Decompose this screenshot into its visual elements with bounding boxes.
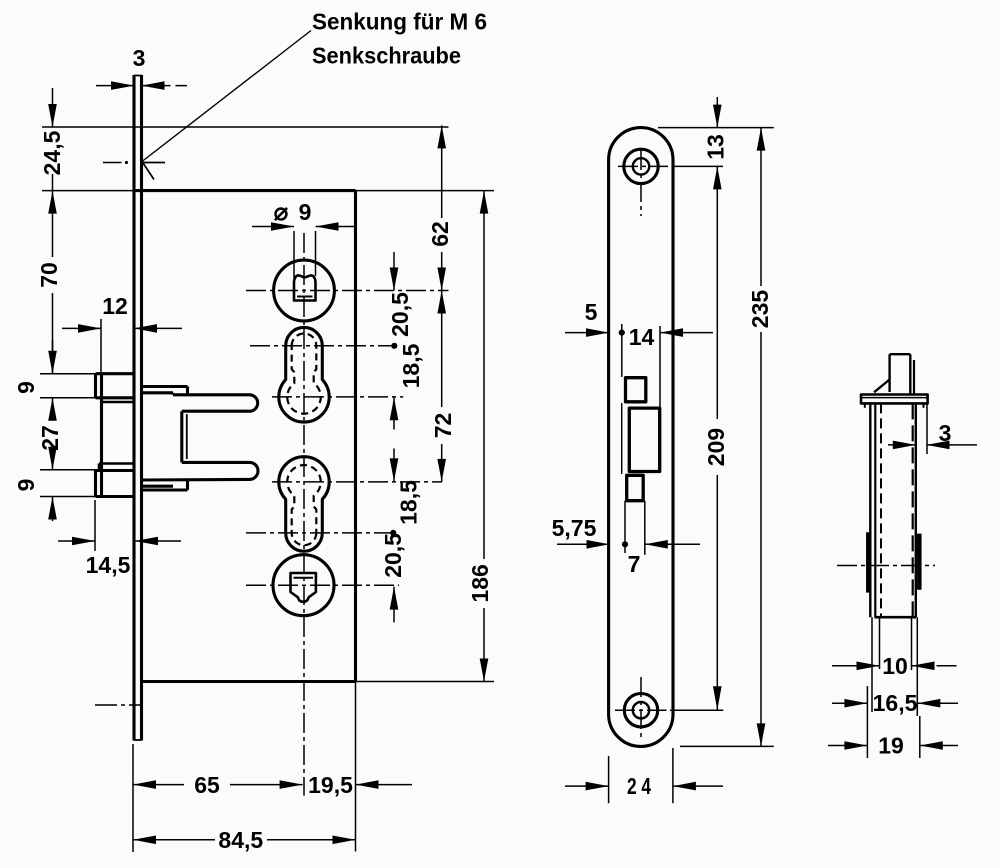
latch cutout upper square — [626, 378, 646, 402]
svg-text:9: 9 — [299, 199, 312, 225]
keyhole 2 hidden cylinder profile (dashed) — [287, 465, 321, 545]
centerline top hole — [246, 290, 449, 292]
countersink centerline mark — [103, 162, 122, 164]
extension left x133 down — [132, 744, 134, 852]
right view centerline — [837, 565, 935, 567]
svg-text:10: 10 — [882, 653, 908, 679]
dimension 70 — [52, 218, 54, 257]
plate bottom centerline mark — [95, 704, 141, 706]
top screw head — [624, 149, 658, 183]
dimension 84,5 — [133, 836, 156, 845]
bottom screw head — [624, 694, 657, 727]
fork lower prong — [182, 461, 250, 464]
svg-text:9: 9 — [13, 479, 39, 492]
centerline bottom hole — [246, 584, 399, 586]
svg-text:72: 72 — [430, 413, 456, 439]
keyhole 1 hidden cylinder profile (dashed) — [287, 333, 321, 413]
fork lower flange — [142, 485, 174, 488]
dimension 209 — [716, 230, 718, 419]
bottom follower square with shield — [291, 573, 316, 602]
dimension 10 — [832, 665, 880, 667]
dimension 14,5 — [94, 500, 96, 551]
svg-text:9: 9 — [13, 381, 39, 394]
keyhole 2 outline (euro profile inverted) — [279, 457, 329, 552]
fork upper prong — [173, 393, 250, 396]
svg-text:19: 19 — [878, 733, 904, 759]
svg-text:84,5: 84,5 — [218, 827, 263, 853]
top screw-nut hole circle — [274, 260, 335, 321]
hook tip cross-section — [890, 353, 911, 355]
extension y373.7 — [40, 373, 96, 375]
faceplate edge (left view) vertical lines — [132, 75, 135, 741]
fork notch verticals — [180, 411, 183, 462]
lock body bottom edge — [875, 616, 917, 619]
dimension 20,5 upper — [393, 252, 395, 291]
top screw centerlines — [618, 165, 668, 167]
top follower square with dome — [294, 275, 316, 300]
dimension 186 — [480, 191, 489, 214]
latch lever edge line — [621, 403, 623, 474]
extension case right edge down — [355, 682, 357, 852]
svg-text:5: 5 — [585, 299, 598, 325]
svg-text:209: 209 — [703, 428, 729, 466]
dimension 19 — [828, 745, 867, 747]
extension plate bottom right — [680, 745, 774, 747]
lock body side edges — [869, 403, 871, 617]
svg-text:62: 62 — [427, 221, 453, 247]
extension plate top right — [658, 127, 774, 129]
dimension 14 (middle view) — [621, 324, 623, 377]
gusset diagonal — [874, 380, 890, 393]
extension legs below body — [871, 617, 873, 712]
svg-text:19,5: 19,5 — [308, 772, 353, 798]
extension case bottom right — [356, 681, 495, 683]
svg-text:186: 186 — [467, 564, 493, 602]
lock case outline — [134, 189, 356, 192]
dimension 16,5 — [832, 702, 867, 704]
extension y397.8 — [40, 397, 96, 399]
extension top screw center right — [672, 165, 723, 167]
svg-text:Senkung für M 6: Senkung für M 6 — [312, 9, 487, 35]
dimension 12 — [100, 319, 102, 374]
latch cutout main rectangle — [629, 408, 659, 471]
dimension 72 — [437, 291, 446, 314]
svg-text:235: 235 — [747, 290, 773, 329]
svg-text:65: 65 — [194, 772, 220, 798]
centerline keyhole1 big — [272, 396, 403, 398]
extension case top left — [42, 190, 134, 192]
svg-text:18,5: 18,5 — [398, 343, 424, 388]
faceplate cross-section (flange) — [861, 395, 928, 404]
dimension 3 (bolt clearance) — [926, 403, 928, 454]
svg-text:12: 12 — [102, 293, 128, 319]
centerline keyhole2 small — [246, 532, 393, 534]
latch cutout lower square — [627, 475, 644, 500]
svg-text:7: 7 — [628, 551, 641, 577]
svg-text:14,5: 14,5 — [86, 552, 131, 578]
dimension 235 — [757, 128, 766, 151]
dimension 13 — [716, 97, 718, 128]
svg-text:13: 13 — [703, 134, 729, 160]
svg-text:Senkschraube: Senkschraube — [312, 43, 461, 69]
svg-text:18,5: 18,5 — [396, 480, 422, 525]
bottom screw centerlines — [615, 709, 667, 711]
svg-text:14: 14 — [629, 324, 655, 350]
dimension 9 (top) — [52, 340, 54, 374]
svg-text:70: 70 — [36, 262, 62, 288]
hook bolt head profile — [96, 372, 134, 375]
dimension 7 — [624, 501, 626, 553]
svg-text:24,5: 24,5 — [39, 130, 65, 175]
svg-text:20,5: 20,5 — [380, 533, 406, 578]
dimension 65 and 19,5 — [133, 780, 156, 789]
svg-text:5,75: 5,75 — [552, 515, 597, 541]
dimension 24,5 — [52, 88, 54, 127]
dimension 24 — [608, 756, 610, 803]
extension case top right — [356, 190, 495, 192]
svg-text:16,5: 16,5 — [873, 690, 918, 716]
bottom screw-nut hole circle — [273, 555, 334, 616]
extension line y127 (countersink height) — [42, 126, 449, 128]
extension y496.5 — [40, 496, 96, 498]
centerline keyhole2 big — [272, 481, 442, 483]
dimension 62 — [437, 125, 446, 148]
leader line to countersink — [142, 38, 302, 162]
extension bottom screw center right — [670, 709, 723, 711]
keyhole 1 outline (euro profile) — [279, 327, 329, 422]
hole centerline vertical — [303, 233, 305, 796]
lock body reinforcement bands — [866, 532, 871, 592]
svg-text:⌀: ⌀ — [274, 199, 289, 226]
faceplate front outline (rounded) — [609, 128, 673, 747]
svg-text:2 4: 2 4 — [627, 773, 651, 799]
lock body hidden edges (dashed) — [880, 403, 882, 617]
svg-text:3: 3 — [133, 45, 146, 71]
extension y469.8 — [40, 469, 99, 471]
centerline keyhole1 small — [250, 345, 394, 347]
fork upper flange — [142, 385, 188, 388]
dimension 18,5 lower — [393, 449, 395, 482]
svg-text:20,5: 20,5 — [387, 292, 413, 337]
